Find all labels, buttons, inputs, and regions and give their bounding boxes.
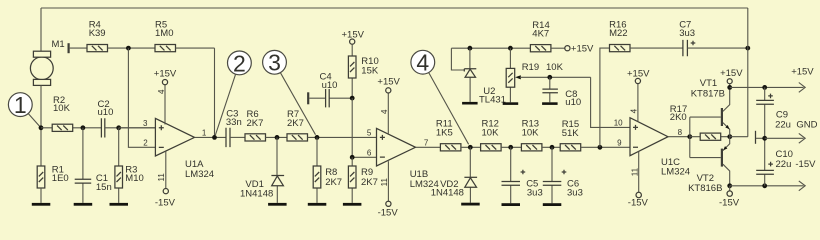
svg-text:10K: 10K (482, 128, 500, 139)
resistor R14 (530, 20, 564, 52)
svg-text:VT1: VT1 (700, 78, 717, 89)
ground C6 (543, 203, 562, 206)
svg-text:u10: u10 (98, 107, 114, 118)
svg-text:1E0: 1E0 (52, 173, 69, 184)
ground R1 (32, 203, 51, 206)
resistor R5 (155, 20, 215, 138)
motor M1 (30, 39, 64, 86)
svg-text:7: 7 (424, 139, 429, 148)
junction C4-R10 (350, 96, 355, 101)
arrowhead +15V (799, 83, 805, 93)
svg-text:1K5: 1K5 (436, 128, 453, 139)
ground R19 (503, 102, 519, 105)
junction emitters (727, 134, 732, 139)
svg-text:1N4148: 1N4148 (240, 189, 273, 200)
wire top rail drop (747, 8, 749, 137)
wire U1C pin4 (637, 84, 639, 122)
node 2 (215, 50, 251, 135)
svg-text:-15V: -15V (378, 208, 399, 219)
resistor R3 (115, 128, 144, 203)
svg-text:TL431: TL431 (479, 94, 506, 105)
junction C7 top rail (745, 46, 750, 51)
svg-text:u10: u10 (322, 80, 338, 91)
junction GND node (762, 136, 767, 141)
svg-text:4: 4 (157, 89, 166, 94)
capacitor C4 (308, 72, 352, 108)
capacitor C8 (542, 77, 581, 108)
svg-text:10K: 10K (522, 128, 540, 139)
resistor R11 (436, 119, 481, 151)
junction VD1 tap (275, 135, 280, 140)
wire emitter rail (730, 136, 748, 138)
junction U2 cathode (468, 46, 473, 51)
wire R16 feedback drop (600, 48, 610, 147)
svg-text:4: 4 (380, 109, 389, 114)
svg-text:3u3: 3u3 (567, 188, 583, 199)
ground R8 (308, 203, 327, 206)
svg-text:10K: 10K (546, 62, 564, 73)
capacitor C5 (502, 147, 543, 203)
svg-text:22u: 22u (775, 119, 791, 130)
wire GND output (765, 137, 804, 139)
svg-text:2K7: 2K7 (247, 118, 264, 129)
junction C10 bottom (762, 183, 767, 188)
capacitor C7 (679, 20, 748, 57)
svg-text:2K7: 2K7 (287, 118, 304, 129)
junction R7 output (315, 135, 320, 140)
resistor R2 (41, 95, 101, 131)
terminal -15V VT2 (719, 186, 740, 209)
wire U1B pin4 (387, 93, 389, 134)
terminal +15V VT1 (720, 68, 743, 88)
op-amp U1C (614, 118, 690, 178)
op-amp U1B (367, 128, 439, 190)
svg-text:4K7: 4K7 (532, 29, 549, 40)
junction R4-R5 (126, 46, 131, 51)
node 4 (411, 50, 469, 145)
svg-text:9: 9 (617, 139, 622, 148)
svg-text:+15V: +15V (627, 69, 650, 80)
svg-text:-15V: -15V (795, 159, 816, 170)
svg-text:M1: M1 (52, 39, 65, 50)
svg-text:11: 11 (380, 178, 389, 187)
diode VD1 (240, 137, 284, 203)
resistor R12 (481, 119, 522, 151)
terminal +15V U1B (377, 77, 400, 93)
svg-text:+15V: +15V (571, 44, 594, 55)
svg-text:GND: GND (796, 119, 817, 130)
ground R3 (110, 203, 129, 206)
svg-text:+15V: +15V (720, 68, 743, 79)
wire motor bottom lead (40, 85, 42, 166)
terminal +15V U1C (627, 69, 650, 84)
svg-text:8: 8 (678, 128, 683, 137)
wire U1C pin11 (638, 151, 640, 192)
wire inverting input feedback (128, 48, 155, 147)
svg-text:4: 4 (416, 50, 429, 76)
wire U1B output (416, 146, 441, 148)
node 1 (8, 92, 39, 127)
junction VT1 collector (727, 85, 732, 90)
svg-text:+15V: +15V (154, 69, 177, 80)
terminal tap M1 (69, 43, 87, 53)
terminal -15V U1C (628, 192, 649, 208)
capacitor C3 (226, 109, 245, 147)
svg-text:2: 2 (143, 139, 148, 148)
resistor R4 (87, 20, 155, 52)
resistor R6 (245, 109, 287, 141)
svg-text:33n: 33n (226, 117, 242, 128)
node 3 (263, 50, 316, 135)
junction node1 (39, 125, 44, 130)
potentiometer R19 (506, 48, 590, 102)
svg-text:1M0: 1M0 (155, 28, 173, 39)
svg-text:2K7: 2K7 (325, 177, 342, 188)
wire top feedback rail (41, 7, 748, 9)
ground VD2 (461, 203, 480, 206)
svg-text:3: 3 (268, 50, 281, 76)
svg-text:2K7: 2K7 (361, 177, 378, 188)
wire wiper to pin10 (591, 77, 630, 127)
svg-text:u10: u10 (565, 97, 581, 108)
svg-text:11: 11 (630, 167, 639, 176)
transistor VT2 (688, 137, 730, 194)
ground C1 (74, 203, 93, 206)
svg-text:R19: R19 (522, 62, 539, 73)
svg-text:-15V: -15V (719, 198, 740, 209)
wire U1A pin11 (165, 151, 167, 188)
capacitor C6 (543, 147, 583, 203)
wire -15V output (730, 185, 804, 187)
svg-text:5: 5 (367, 129, 372, 138)
junction R9 tap (350, 155, 355, 160)
svg-text:11: 11 (157, 173, 166, 182)
junction R3 tap (116, 125, 121, 130)
junction U1C output (687, 134, 692, 139)
svg-text:LM324: LM324 (185, 169, 214, 180)
junction C9 top (762, 85, 767, 90)
wire U1C output (668, 136, 690, 138)
resistor R13 (521, 119, 560, 151)
svg-text:-15V: -15V (155, 197, 176, 208)
resistor R8 (313, 137, 342, 203)
wire U1A output (195, 136, 226, 138)
shunt regulator U2 TL431 (451, 48, 506, 105)
resistor R10 (342, 30, 379, 99)
svg-text:KT816B: KT816B (688, 183, 722, 194)
junction R15-pin9 (598, 145, 603, 150)
svg-text:LM324: LM324 (661, 167, 690, 178)
transistor VT1 (690, 78, 730, 137)
svg-text:+15V: +15V (377, 77, 400, 88)
svg-text:3: 3 (143, 119, 148, 128)
svg-text:15n: 15n (96, 182, 112, 193)
svg-text:4: 4 (630, 108, 639, 113)
svg-text:1: 1 (202, 128, 207, 137)
ground R9 (343, 203, 362, 206)
junction U1A output (212, 135, 217, 140)
wire +15V output (730, 86, 804, 88)
wire motor top lead (40, 8, 42, 51)
resistor R9 (348, 157, 378, 203)
svg-text:2K0: 2K0 (670, 112, 687, 123)
ground C8 (542, 102, 558, 105)
terminal +15V U1A (154, 69, 177, 85)
ground U2 (462, 102, 478, 105)
wire to U1B pin6 (352, 98, 376, 157)
resistor R1 (37, 164, 69, 203)
svg-text:M22: M22 (609, 28, 627, 39)
resistor R15 (560, 119, 630, 151)
svg-text:-15V: -15V (628, 198, 649, 209)
junction C1 tap (81, 125, 86, 130)
svg-text:6: 6 (367, 149, 372, 158)
arrowhead GND (799, 133, 805, 143)
svg-text:M10: M10 (125, 173, 143, 184)
capacitor C9 (756, 87, 791, 138)
capacitor C2 (98, 99, 156, 138)
wire TL431 top rail (451, 47, 530, 49)
svg-text:1N4148: 1N4148 (431, 188, 464, 199)
wire U1B pin11 (387, 161, 389, 201)
svg-text:10: 10 (614, 119, 623, 128)
capacitor C10 (756, 138, 793, 186)
terminal -15V U1B (378, 201, 399, 219)
svg-text:1: 1 (14, 92, 27, 118)
junction C8 tap (547, 75, 552, 80)
ground VD1 (268, 203, 287, 206)
arrowhead -15V (799, 181, 805, 191)
resistor R16 (609, 20, 683, 52)
svg-text:10K: 10K (53, 103, 71, 114)
resistor R7 (287, 109, 377, 141)
terminal -15V U1A (155, 189, 176, 209)
junction VD2 tap (468, 145, 473, 150)
resistor R17 (670, 104, 730, 141)
op-amp U1A (119, 118, 214, 180)
junction C6 tap (550, 145, 555, 150)
capacitor emitter plate (756, 131, 765, 144)
svg-text:+15V: +15V (791, 66, 814, 77)
terminal +15V R14 (565, 44, 594, 55)
svg-text:KT817B: KT817B (691, 88, 725, 99)
svg-text:3u3: 3u3 (527, 188, 543, 199)
ground C5 (502, 203, 521, 206)
junction R19 top (508, 46, 513, 51)
svg-text:2: 2 (233, 50, 246, 76)
svg-text:K39: K39 (89, 28, 106, 39)
svg-text:51K: 51K (562, 128, 580, 139)
capacitor C1 (75, 128, 112, 203)
junction C5 tap (508, 145, 513, 150)
svg-text:15K: 15K (361, 66, 379, 77)
diode VD2 (431, 147, 477, 202)
wire U1A pin4 (164, 85, 166, 125)
svg-text:22u: 22u (776, 159, 792, 170)
svg-text:3u3: 3u3 (679, 28, 695, 39)
junction VT2 collector (727, 183, 732, 188)
